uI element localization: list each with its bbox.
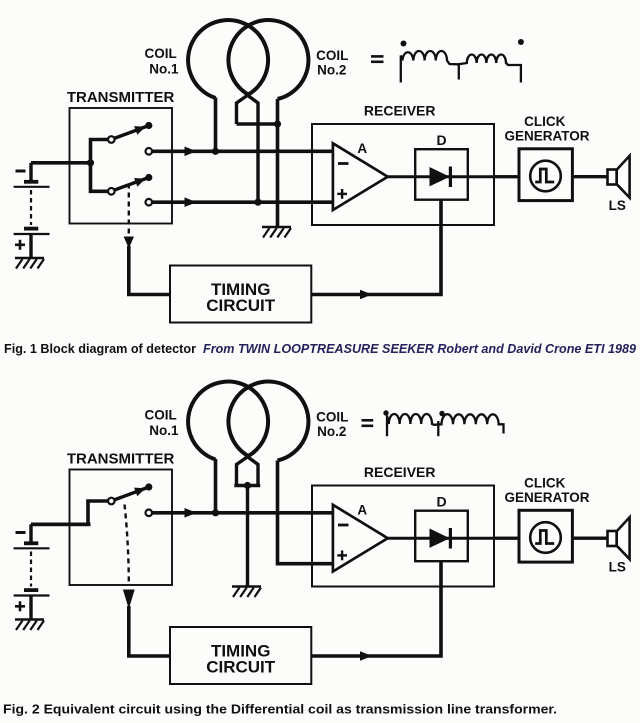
pulse waveform glyph (535, 169, 554, 182)
wire1: transmitter output to receiver inverting input (152, 150, 333, 154)
ground (battery) (15, 618, 44, 621)
battery minus terminal label (16, 170, 26, 173)
ground (battery) (15, 257, 44, 260)
wire to upper switch pivot (91, 140, 109, 163)
switch S1a pivot (108, 136, 115, 143)
svg-text:LS: LS (609, 198, 626, 213)
dashed control link from switch (125, 505, 129, 584)
coil No.1 loop (188, 382, 268, 460)
svg-text:GENERATOR: GENERATOR (504, 490, 589, 505)
svg-text:GENERATOR: GENERATOR (504, 128, 589, 143)
ground (coil centre tap) (232, 585, 261, 588)
switch S1 moving contact (145, 483, 152, 490)
switch S1b blade (114, 178, 149, 191)
svg-text:A: A (357, 502, 367, 517)
wire control link to timing circuit (129, 606, 170, 656)
node: coil No.1 on wire1 (212, 148, 219, 155)
arrowhead on wire1 (185, 147, 197, 157)
battery minus terminal label (16, 531, 26, 534)
svg-text:COIL: COIL (316, 410, 348, 425)
svg-text:D: D (437, 494, 447, 510)
svg-text:CLICK: CLICK (524, 476, 565, 491)
op-amp inverting input label (338, 162, 349, 165)
transformer centre tap (458, 64, 460, 79)
wire D output through receiver edge (494, 175, 519, 178)
svg-text:No.2: No.2 (317, 424, 346, 439)
coil No.2 loop (228, 382, 308, 461)
coil interconnect wire (237, 122, 278, 125)
wire D output through receiver edge (494, 537, 519, 540)
timing circuit box (170, 627, 311, 684)
twisted pair joining bar (234, 484, 260, 487)
battery negative wire (31, 161, 91, 165)
svg-text:From TWIN LOOPTREASURE SEEKER: From TWIN LOOPTREASURE SEEKER Robert and… (203, 341, 637, 356)
timing circuit box (170, 266, 311, 323)
op-amp inverting input label (338, 524, 349, 527)
wire op-amp output to click generator (388, 175, 519, 178)
battery cell 2 (24, 227, 38, 231)
switch S1a blade (114, 126, 149, 139)
arrowhead on control link (123, 590, 135, 610)
switch S1b throw contact (146, 199, 153, 206)
arrowhead on control link (124, 237, 134, 249)
node: battery feed junction (87, 159, 94, 166)
wire to lower switch pivot (91, 163, 109, 192)
phasing dot right (transformer) (518, 39, 524, 45)
svg-text:No.1: No.1 (149, 62, 179, 77)
ground (coil return) (262, 226, 291, 229)
centre tap lead to ground (246, 486, 249, 587)
svg-text:CLICK: CLICK (524, 114, 565, 129)
battery negative wire (31, 522, 91, 526)
node: interconnect to coil No.2 lead (274, 120, 281, 127)
switch S1 throw contact (146, 510, 153, 517)
op-amp non-inverting input label (337, 554, 347, 556)
dashed control link from switches (128, 184, 130, 234)
transformer centre tap (437, 421, 439, 436)
svg-text:TRANSMITTER: TRANSMITTER (67, 89, 175, 106)
coil No.2 lead down to ground (276, 99, 280, 227)
node: twisted pair on wire2 (254, 199, 261, 206)
op-amp A (333, 505, 388, 572)
loudspeaker LS (608, 531, 617, 546)
switch S1b moving contact (145, 174, 152, 181)
svg-text:Fig. 1 Block diagram of detect: Fig. 1 Block diagram of detector (4, 341, 196, 356)
switch S1a moving contact (145, 122, 152, 129)
hand-drawn transformer winding L1-L2 (401, 51, 521, 83)
svg-text:LS: LS (609, 559, 626, 574)
op-amp non-inverting input label (337, 193, 347, 195)
node: twisted pair centre (244, 482, 251, 489)
node: coil No.1 on wire1 (212, 509, 219, 516)
detector box D (415, 149, 468, 200)
hand-drawn transformer winding (differential) (387, 414, 504, 436)
svg-text:RECEIVER: RECEIVER (364, 464, 436, 480)
svg-text:COIL: COIL (144, 46, 176, 61)
battery cell 1 (29, 524, 32, 543)
coil No.1 loop (188, 20, 268, 98)
battery dashed middle (cells omitted) (30, 552, 32, 587)
svg-text:Fig. 2 Equivalent circuit usin: Fig. 2 Equivalent circuit using the Diff… (3, 702, 557, 717)
pulse symbol circle (530, 161, 561, 192)
switch S1 blade (114, 487, 149, 500)
wire timing circuit to detector D (311, 561, 441, 656)
wire1: transmitter output to receiver inverting input (152, 511, 333, 515)
loudspeaker LS (608, 170, 617, 185)
wire battery to switch pivot (31, 501, 108, 524)
pulse waveform glyph (535, 531, 554, 544)
svg-text:TRANSMITTER: TRANSMITTER (67, 451, 175, 468)
coil twisted pair right lead (248, 457, 259, 486)
coil No.1 left lead (214, 98, 218, 152)
svg-text:No.1: No.1 (149, 423, 179, 438)
click generator box (519, 149, 572, 201)
battery lead to ground (29, 596, 32, 620)
coil No.2 lead to receiver non-inverting input (wire2) (278, 461, 333, 564)
svg-text:RECEIVER: RECEIVER (364, 103, 436, 119)
battery cell 1 (29, 163, 32, 182)
arrowhead on wire2 (185, 197, 197, 207)
wire2: transmitter output to receiver non-inverting input (152, 200, 333, 204)
switch S1b pivot (108, 188, 115, 195)
svg-text:CIRCUIT: CIRCUIT (206, 296, 276, 315)
phasing dot left (transformer) (383, 410, 388, 415)
arrowhead on wire to detector (360, 651, 372, 661)
battery lead to ground (29, 234, 32, 258)
battery plus terminal label (15, 605, 25, 608)
detector box D (415, 511, 468, 562)
svg-text:COIL: COIL (316, 48, 348, 63)
wire click generator to loudspeaker (572, 537, 607, 540)
receiver box (312, 486, 494, 587)
phasing dot left (transformer) (401, 41, 407, 47)
battery dashed middle (cells omitted) (30, 190, 32, 225)
svg-text:No.2: No.2 (317, 62, 346, 77)
coil twisted pair left lead (237, 457, 248, 486)
coil twisted pair right lead (248, 95, 259, 202)
battery plus terminal label (15, 244, 25, 247)
svg-text:CIRCUIT: CIRCUIT (206, 658, 276, 677)
wire click generator to loudspeaker (572, 175, 607, 178)
wire op-amp output to click generator (388, 537, 519, 540)
pulse symbol circle (530, 522, 561, 553)
op-amp A (333, 143, 388, 210)
equals sign (equivalent circuit) (371, 55, 384, 58)
diode D1 (430, 167, 450, 186)
arrowhead on wire to detector (360, 290, 372, 300)
switch S1a throw contact (146, 148, 153, 155)
transmitter box (70, 470, 173, 586)
diode D1 (430, 529, 450, 548)
wire control link to timing circuit (129, 246, 170, 295)
svg-text:COIL: COIL (144, 408, 176, 423)
transmitter box (70, 108, 173, 224)
svg-text:D: D (437, 132, 447, 148)
wire timing circuit to detector D (311, 200, 441, 295)
switch S1 pivot (108, 498, 115, 505)
equals sign (equivalent circuit) (362, 419, 374, 422)
arrowhead on wire1 (185, 508, 197, 518)
coil No.1 left lead (214, 459, 218, 513)
coil No.2 loop (228, 20, 308, 99)
phasing dot centre (transformer) (439, 411, 444, 416)
click generator box (519, 510, 572, 562)
receiver box (312, 124, 494, 225)
svg-text:A: A (357, 141, 367, 156)
coil No.1 right lead (twisted pair left) (237, 95, 248, 124)
battery cell 2 (24, 588, 38, 592)
